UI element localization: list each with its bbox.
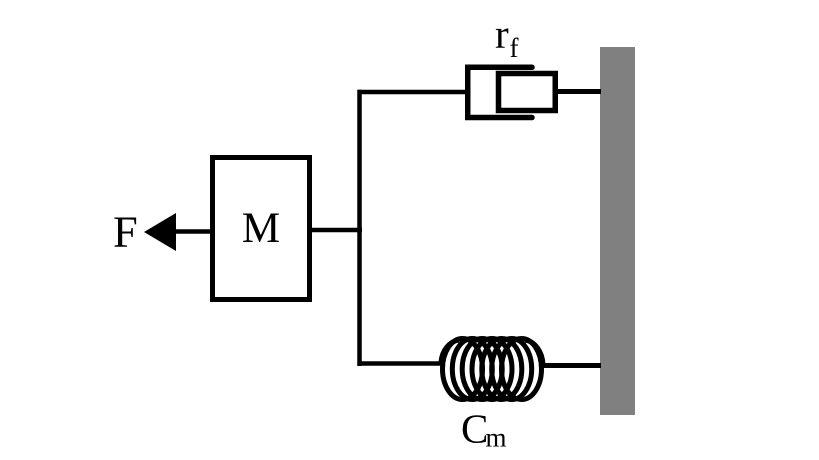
svg-text:r: r bbox=[495, 11, 509, 57]
wire mass to node bbox=[310, 228, 362, 233]
wire damper to wall bbox=[556, 89, 601, 94]
svg-text:m: m bbox=[486, 423, 507, 453]
force arrowhead bbox=[144, 213, 176, 251]
damper r_f cylinder bbox=[468, 67, 532, 117]
svg-text:F: F bbox=[113, 207, 138, 257]
wall (fixed support) bbox=[600, 47, 635, 415]
mass M bbox=[213, 158, 310, 300]
svg-text:f: f bbox=[510, 33, 519, 63]
wire spring to wall bbox=[542, 363, 601, 368]
wire node to spring bbox=[358, 361, 443, 366]
svg-text:M: M bbox=[242, 205, 280, 252]
svg-text:C: C bbox=[461, 406, 488, 452]
spring C_m coil bbox=[441, 339, 543, 400]
wire node to damper bbox=[358, 90, 467, 95]
wire force to mass bbox=[174, 229, 212, 234]
damper r_f piston bbox=[499, 74, 556, 111]
wire vertical node line bbox=[357, 90, 362, 366]
